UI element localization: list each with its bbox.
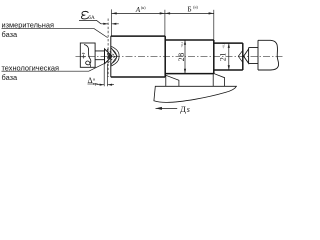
support foot left xyxy=(166,75,179,86)
svg-text:бА: бА xyxy=(88,14,95,21)
workpiece right cylinder xyxy=(214,43,243,70)
svg-text:база: база xyxy=(2,30,18,39)
small marks inside spring box xyxy=(82,53,85,58)
svg-text:21: 21 xyxy=(219,52,228,61)
front center shaft xyxy=(95,51,104,60)
epsilon dimension arrows xyxy=(101,23,119,25)
svg-text:s: s xyxy=(187,105,190,114)
dashed displaced left face xyxy=(107,19,109,78)
svg-text:(н): (н) xyxy=(141,6,146,10)
workpiece left face xyxy=(110,36,112,77)
svg-text:Б: Б xyxy=(188,5,192,13)
left center hole xyxy=(111,48,117,65)
extension lines down from cone to delta dim xyxy=(104,64,107,87)
shoulder 2 xyxy=(213,40,215,74)
svg-text:28: 28 xyxy=(177,52,186,61)
feed direction arrow Ds xyxy=(156,107,178,109)
extension line shoulder2 up xyxy=(213,10,215,40)
tailstock center body xyxy=(249,48,258,64)
vertical dimension 28 xyxy=(184,40,186,74)
dimension A arrowheads xyxy=(112,12,117,14)
svg-text:база: база xyxy=(2,73,18,82)
feed arrowhead xyxy=(156,107,162,110)
epsilon label leader xyxy=(79,20,101,23)
dimension B arrowheads xyxy=(165,12,170,14)
delta label underline xyxy=(88,83,99,85)
svg-text:технологическая: технологическая xyxy=(2,63,59,72)
centerline xyxy=(76,55,285,57)
svg-text:тр: тр xyxy=(93,81,97,86)
front center cone apex fill xyxy=(108,53,112,60)
front center cone (solid) xyxy=(105,49,113,64)
leader measuring base xyxy=(2,29,108,38)
tailstock quill xyxy=(258,40,279,70)
support foot right xyxy=(213,73,224,86)
extension line shoulder1 up xyxy=(164,10,166,36)
workpiece left cylinder xyxy=(111,36,165,77)
front center spring box xyxy=(80,43,95,67)
tailstock center cone xyxy=(244,49,249,63)
label 28 rotated xyxy=(177,42,186,62)
extension line left face up xyxy=(111,9,113,36)
dimension A line xyxy=(112,12,165,14)
shoulder 1 xyxy=(164,36,166,77)
svg-text:А: А xyxy=(135,6,141,14)
vertical dimension 21 xyxy=(228,43,230,70)
svg-text:(н): (н) xyxy=(193,5,198,9)
workpiece right face xyxy=(242,43,244,70)
right center hole xyxy=(238,50,243,62)
leader technological base xyxy=(2,63,107,72)
dimension B line xyxy=(165,12,214,14)
spring squiggle inside box xyxy=(84,45,91,67)
workpiece middle cylinder xyxy=(165,40,214,74)
base plate xyxy=(154,86,237,102)
svg-text:Д: Д xyxy=(180,104,186,114)
svg-text:измерительная: измерительная xyxy=(2,21,54,30)
label epsilon bA xyxy=(81,11,88,19)
delta dimension arrows xyxy=(97,84,114,86)
label 21 rotated xyxy=(219,43,228,62)
front center cone (dashed displaced) xyxy=(108,49,116,63)
